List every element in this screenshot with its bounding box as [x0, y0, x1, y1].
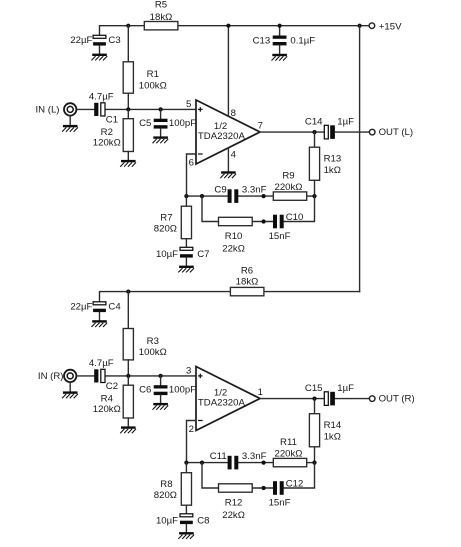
ground (R2) [120, 160, 136, 167]
capacitor C12 [269, 478, 304, 508]
node junction C1/R1/R2 [126, 107, 130, 111]
svg-text:C14: C14 [305, 117, 323, 128]
capacitor C11 [210, 451, 267, 470]
svg-text:18kΩ: 18kΩ [150, 12, 173, 23]
wire right vertical rail to R6 [359, 26, 361, 292]
node junction pin8/rail [226, 24, 230, 28]
svg-text:R6: R6 [241, 266, 253, 277]
svg-text:C7: C7 [197, 249, 209, 260]
pin 5 label [186, 99, 191, 110]
svg-text:22µF: 22µF [70, 35, 92, 46]
svg-text:7: 7 [258, 120, 263, 131]
input terminal IN (R) [38, 370, 76, 392]
node junction C11/R11/C12 branch [262, 461, 266, 465]
svg-text:R2: R2 [101, 127, 113, 138]
resistor R9 [273, 171, 306, 201]
capacitor C4 [70, 302, 121, 321]
svg-text:+15V: +15V [379, 21, 402, 32]
svg-text:100pF: 100pF [169, 118, 196, 129]
resistor R3 [123, 292, 167, 376]
svg-text:3.3nF: 3.3nF [242, 451, 267, 462]
wire input node L [77, 108, 196, 110]
node junction rail/right riser [358, 24, 362, 28]
resistor R14 [309, 399, 341, 463]
resistor R13 [309, 132, 341, 196]
resistor R1 [123, 26, 167, 110]
svg-text:2: 2 [189, 424, 194, 435]
svg-text:R10: R10 [225, 231, 243, 242]
pin 2 label [189, 424, 194, 435]
capacitor C9 [214, 184, 266, 203]
svg-text:C1: C1 [106, 115, 118, 126]
svg-text:IN (L): IN (L) [36, 105, 60, 116]
ground (C8) [178, 532, 194, 539]
wire pin 6 feedback riser [187, 154, 197, 196]
ground (C13) [272, 54, 288, 61]
node junction R9/R13/C10 [312, 194, 316, 198]
pin 3 label [186, 366, 191, 377]
svg-text:15nF: 15nF [269, 231, 291, 242]
node junction R10 branch [200, 194, 204, 198]
svg-text:4.7µF: 4.7µF [89, 358, 114, 369]
svg-text:C5: C5 [139, 118, 151, 129]
capacitor C6 [139, 376, 196, 403]
svg-text:1: 1 [258, 387, 263, 398]
svg-text:TDA2320A: TDA2320A [198, 397, 246, 408]
svg-text:6: 6 [189, 157, 194, 168]
wire feedback node row [186, 195, 314, 197]
svg-text:100kΩ: 100kΩ [139, 347, 167, 358]
node junction R10/C10/C9 lower [262, 219, 266, 223]
wire channel-2 top rail (R6 row) [100, 292, 360, 302]
svg-text:3: 3 [186, 366, 191, 377]
svg-text:22kΩ: 22kΩ [222, 510, 245, 521]
svg-text:R12: R12 [225, 498, 243, 509]
svg-text:1µF: 1µF [337, 383, 354, 394]
svg-text:100kΩ: 100kΩ [139, 80, 167, 91]
node junction C5 [159, 107, 163, 111]
wire pin 8 to +15V rail [227, 26, 229, 117]
pin 4 label [231, 149, 237, 160]
capacitor C3 [70, 35, 120, 53]
wire lower feedback row (R10/C10) [202, 196, 315, 221]
svg-text:R14: R14 [324, 420, 342, 431]
svg-text:3.3nF: 3.3nF [242, 184, 267, 195]
svg-text:C10: C10 [286, 212, 304, 223]
node junction R12 branch [200, 461, 204, 465]
svg-text:C12: C12 [286, 478, 304, 489]
resistor R4 [93, 376, 134, 427]
svg-text:C3: C3 [108, 35, 120, 46]
pin 8 label [231, 108, 236, 119]
capacitor C5 [139, 109, 196, 136]
resistor R7 [154, 196, 192, 247]
svg-text:820Ω: 820Ω [154, 490, 177, 501]
svg-text:OUT (R): OUT (R) [379, 394, 415, 405]
svg-text:5: 5 [186, 99, 191, 110]
capacitor C2 [89, 358, 118, 392]
node junction rail/R1 [126, 24, 130, 28]
capacitor C1 [89, 92, 118, 126]
ground (R4) [120, 426, 136, 433]
svg-text:220kΩ: 220kΩ [275, 449, 303, 460]
svg-text:C13: C13 [253, 35, 271, 46]
capacitor C13 [253, 26, 316, 54]
svg-text:820Ω: 820Ω [154, 223, 177, 234]
wire feedback node row 2 [186, 462, 314, 464]
terminal +15V [369, 21, 402, 32]
ground (C6) [153, 403, 169, 410]
capacitor C15 [305, 383, 354, 405]
resistor R2 [93, 109, 134, 159]
wire pin 2 feedback riser [187, 421, 197, 463]
wire +15V supply rail (top) [100, 26, 369, 36]
wire output L [260, 131, 369, 133]
wire lower feedback row 2 (R12/C12) [202, 463, 315, 488]
capacitor C7 [156, 247, 210, 265]
svg-text:0.1µF: 0.1µF [290, 35, 315, 46]
ground (IN R connector) [62, 391, 78, 398]
svg-text:R9: R9 [282, 171, 294, 182]
ground (C7) [178, 266, 194, 273]
ground (C4) [91, 320, 107, 327]
ground (IN L connector) [62, 125, 78, 132]
node junction R12/C12/C11 lower [262, 486, 266, 490]
wire input node R [77, 375, 196, 377]
svg-text:15nF: 15nF [269, 498, 291, 509]
svg-text:4.7µF: 4.7µF [89, 92, 114, 103]
svg-text:C9: C9 [214, 184, 226, 195]
svg-text:TDA2320A: TDA2320A [198, 131, 246, 142]
node junction C9/R9/C10 branch [262, 194, 266, 198]
node junction C2/R3/R4 [126, 374, 130, 378]
terminal OUT (R) [369, 394, 414, 405]
svg-text:22µF: 22µF [70, 302, 92, 313]
svg-text:220kΩ: 220kΩ [275, 182, 303, 193]
terminal OUT (L) [369, 127, 413, 138]
input terminal IN (L) [36, 103, 77, 125]
svg-text:C4: C4 [108, 302, 121, 313]
resistor R8 [154, 463, 192, 514]
svg-text:1µF: 1µF [337, 117, 354, 128]
node junction R11/R14/C12 [312, 461, 316, 465]
svg-text:R5: R5 [155, 0, 167, 10]
svg-text:8: 8 [231, 108, 236, 119]
svg-text:4: 4 [231, 149, 237, 160]
svg-text:IN (R): IN (R) [38, 371, 64, 382]
node junction rail2/R3 [126, 290, 130, 294]
resistor R6 [230, 266, 264, 296]
node junction C13/rail [278, 24, 282, 28]
pin 1 label [258, 387, 263, 398]
pin 6 label [189, 157, 194, 168]
svg-text:10µF: 10µF [156, 249, 178, 260]
resistor R11 [273, 437, 306, 467]
svg-text:R13: R13 [324, 153, 342, 164]
svg-text:1kΩ: 1kΩ [324, 431, 341, 442]
svg-text:R11: R11 [280, 437, 297, 448]
svg-text:120kΩ: 120kΩ [93, 138, 121, 149]
svg-text:22kΩ: 22kΩ [222, 243, 245, 254]
svg-text:120kΩ: 120kΩ [93, 404, 121, 415]
capacitor C8 [156, 514, 210, 532]
op-amp U1b (1/2 TDA2320A) [196, 367, 260, 431]
svg-text:R3: R3 [147, 336, 159, 347]
pin 7 label [258, 120, 263, 131]
svg-text:1kΩ: 1kΩ [324, 165, 341, 176]
svg-text:C6: C6 [139, 384, 151, 395]
node junction output/C14/R13 [312, 130, 316, 134]
svg-text:R1: R1 [147, 69, 159, 80]
svg-text:C11: C11 [210, 451, 227, 462]
svg-text:18kΩ: 18kΩ [236, 277, 259, 288]
svg-text:100pF: 100pF [169, 384, 196, 395]
node junction pin2/R8 [184, 461, 188, 465]
capacitor C10 [269, 212, 304, 242]
wire pin 4 to ground [227, 148, 229, 172]
svg-text:C8: C8 [197, 515, 209, 526]
svg-text:R4: R4 [101, 393, 114, 404]
svg-text:R8: R8 [160, 479, 172, 490]
capacitor C14 [305, 117, 354, 139]
svg-text:C15: C15 [305, 383, 323, 394]
node junction output/C15/R14 [312, 397, 316, 401]
node junction C6 [159, 374, 163, 378]
wire output R [260, 398, 369, 400]
resistor R10 [219, 217, 253, 254]
op-amp U1a (1/2 TDA2320A) [196, 100, 260, 164]
svg-text:10µF: 10µF [156, 515, 178, 526]
svg-text:OUT (L): OUT (L) [379, 127, 413, 138]
svg-text:C2: C2 [106, 381, 118, 392]
resistor R12 [219, 484, 253, 521]
node junction pin6/R7 [184, 194, 188, 198]
ground (C5) [153, 136, 169, 143]
ground (U1a pin 4) [220, 171, 236, 178]
ground (C3) [91, 54, 107, 61]
resistor R5 [144, 0, 178, 30]
svg-text:R7: R7 [160, 213, 172, 224]
